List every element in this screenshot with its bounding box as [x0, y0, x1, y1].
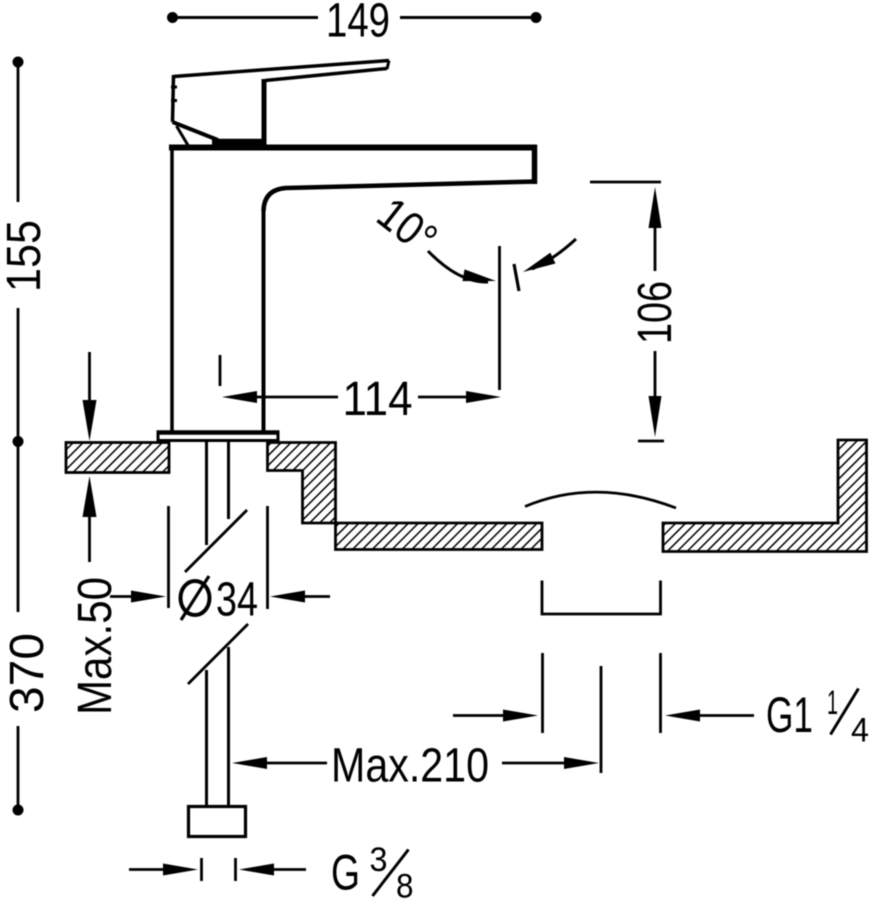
deck right section (hatched) [663, 440, 867, 552]
escutcheon base plate [158, 433, 278, 441]
supply pipe left line [205, 441, 208, 807]
deck middle stepped section (hatched) [268, 443, 543, 550]
svg-text:4: 4 [851, 712, 869, 750]
svg-text:155: 155 [0, 220, 51, 292]
svg-text:Max.210: Max.210 [331, 740, 489, 793]
svg-text:149: 149 [326, 0, 390, 48]
svg-text:G1: G1 [766, 687, 813, 743]
svg-text:114: 114 [343, 373, 413, 426]
svg-text:1: 1 [827, 684, 838, 722]
dimension G1 1/4 [453, 653, 754, 773]
hose break diagonal upper [185, 510, 247, 572]
basin dome arc [525, 492, 676, 508]
dimension O34 [110, 506, 330, 609]
drain tailpiece U outline [542, 581, 661, 615]
10 degree tilted tick [514, 264, 519, 291]
dimension Max.210 [232, 757, 599, 769]
deck left section (hatched) [66, 443, 169, 473]
dimension Max.50 [83, 352, 97, 562]
dimension 155 [13, 57, 24, 448]
dimension 114 [220, 355, 501, 403]
10 degree reference vertical line [498, 246, 501, 390]
10 degree left arc arrow [428, 251, 488, 282]
svg-text:3: 3 [370, 841, 388, 879]
dimension G 3/8 [129, 858, 306, 881]
10 degree right arc arrow [532, 239, 576, 269]
G3/8 connector block [189, 807, 246, 837]
svg-text:G: G [331, 845, 360, 900]
hose break diagonal lower [188, 624, 248, 684]
lever handle [171, 61, 389, 148]
dimension 370 [13, 443, 24, 816]
dimension 149 line [167, 12, 542, 23]
supply pipe right line [227, 441, 230, 807]
dimension 106 [590, 182, 664, 441]
svg-text:34: 34 [216, 574, 258, 627]
svg-text:370: 370 [1, 633, 54, 713]
faucet body and spout [169, 145, 537, 433]
svg-text:106: 106 [629, 281, 682, 344]
svg-text:8: 8 [396, 868, 414, 900]
